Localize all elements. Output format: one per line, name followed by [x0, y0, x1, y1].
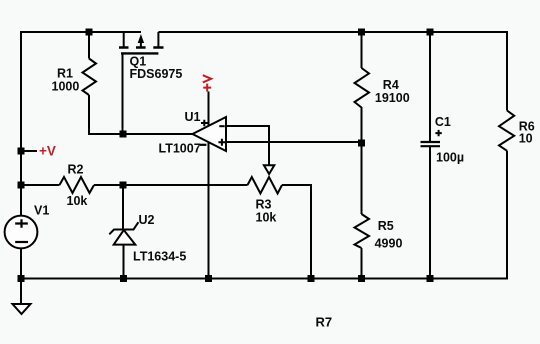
op-amp U1 inverting input minus (inside): [219, 125, 224, 127]
op-amp U1 triangle: [193, 117, 227, 151]
ground symbol: [13, 304, 31, 314]
svg-text:4990: 4990: [375, 237, 403, 251]
node gate/output junction: [120, 131, 127, 138]
wire U2 top lead: [122, 185, 124, 230]
svg-text:R2: R2: [68, 163, 84, 177]
node op-amp V- junction: [205, 275, 212, 282]
svg-text:FDS6975: FDS6975: [130, 67, 183, 81]
svg-text:10: 10: [519, 132, 533, 146]
node +V above op-amp (rotated, red) chevron: [203, 75, 211, 82]
transistor Q1 source lead: [123, 32, 125, 48]
node V1 bottom junction: [18, 275, 25, 282]
node R4/R5 feedback junction: [358, 140, 365, 147]
transistor Q1 drain tick: [153, 46, 163, 49]
wire R4 bottom lead: [361, 107, 363, 143]
svg-text:LT1007: LT1007: [159, 142, 201, 156]
svg-text:R1: R1: [57, 67, 73, 81]
wire right rail upper: [506, 31, 508, 111]
svg-text:100µ: 100µ: [436, 151, 464, 165]
wire top rail right segment: [158, 31, 507, 33]
wire R4 top lead: [361, 32, 363, 68]
wire R5 bottom lead: [361, 248, 363, 279]
node C1 top junction: [427, 29, 434, 36]
wire R1 top lead: [88, 32, 90, 59]
potentiometer R3 body: [248, 177, 283, 194]
wire V1 bottom lead: [20, 249, 22, 279]
node R5 bottom junction: [358, 275, 365, 282]
wire C1 bottom lead: [429, 147, 431, 279]
resistor R2: [60, 177, 95, 193]
transistor Q1 gate bar: [121, 52, 158, 54]
wire C1 top lead: [429, 32, 431, 141]
svg-text:+V: +V: [39, 144, 56, 159]
svg-text:LT1634-5: LT1634-5: [133, 250, 186, 264]
svg-text:U2: U2: [139, 213, 155, 227]
op-amp U1 supply plus (outside top): [201, 120, 208, 127]
wire R3 right lead: [282, 184, 311, 186]
svg-text:R3: R3: [256, 198, 272, 212]
wire R1 bottom lead: [88, 95, 90, 134]
transistor Q1 body arrowhead: [138, 34, 144, 43]
wire R2 left lead: [21, 184, 60, 186]
wire right rail lower: [506, 151, 508, 280]
capacitor C1 plus mark: [435, 130, 441, 136]
wire R2 to R3: [94, 184, 248, 186]
capacitor C1 bottom plate: [421, 145, 441, 147]
capacitor C1 top plate: [421, 141, 441, 143]
voltage source V1 minus: [15, 241, 28, 243]
svg-text:V1: V1: [34, 204, 49, 218]
wire U2 bottom lead: [123, 245, 125, 279]
op-amp U1 supply minus (outside bottom): [200, 144, 206, 146]
transistor Q1 source tick: [119, 46, 129, 49]
wire bottom rail: [21, 278, 507, 280]
svg-text:10k: 10k: [256, 211, 277, 225]
transistor Q1 body tick: [136, 46, 146, 49]
svg-text:10k: 10k: [67, 194, 88, 208]
zener U2 cathode bar: [109, 222, 138, 234]
op-amp U1 non-inverting input plus (inside): [218, 139, 225, 146]
resistor R4: [355, 68, 370, 108]
voltage source V1 circle: [5, 216, 38, 249]
wire R5 top lead: [361, 143, 363, 214]
svg-text:R4: R4: [383, 78, 399, 92]
wire +V stub left: [21, 150, 37, 152]
wire left rail: [20, 31, 22, 215]
node R4 top junction: [358, 29, 365, 36]
resistor R6: [499, 111, 514, 151]
wire non-inverting input to R4/R5 node: [226, 141, 362, 143]
transistor Q1 gate lead: [122, 53, 124, 134]
wire op-amp output to R1: [88, 133, 193, 135]
wire R3 right down to rail: [310, 184, 312, 279]
node +V above op-amp plus: [203, 84, 211, 92]
wire op-amp V+ / V- power line: [208, 92, 210, 279]
transistor Q1 drain lead: [157, 32, 159, 48]
node R1 top junction: [86, 29, 93, 36]
svg-text:U1: U1: [185, 110, 201, 124]
svg-text:1000: 1000: [52, 80, 80, 94]
svg-text:R5: R5: [378, 219, 394, 233]
svg-text:R7: R7: [316, 315, 333, 330]
node U2 top junction: [120, 182, 127, 189]
resistor R5: [355, 214, 370, 248]
voltage source V1 plus: [15, 219, 28, 228]
node +V tap junction: [18, 148, 25, 155]
node C1 bottom junction: [427, 275, 434, 282]
node U2 bottom junction: [120, 275, 127, 282]
zener U2 triangle: [114, 230, 136, 245]
wire inverting input to wiper: [226, 126, 269, 165]
node R2 left junction: [18, 182, 25, 189]
potentiometer R3 wiper arrow: [264, 165, 274, 174]
svg-text:19100: 19100: [375, 91, 410, 105]
node R3 bottom junction: [308, 275, 315, 282]
wire top rail left segment: [21, 31, 141, 33]
transistor Q1 body arrow stem: [140, 43, 142, 48]
wire ground stub: [20, 278, 22, 305]
resistor R1: [83, 59, 97, 96]
svg-text:C1: C1: [435, 115, 451, 129]
